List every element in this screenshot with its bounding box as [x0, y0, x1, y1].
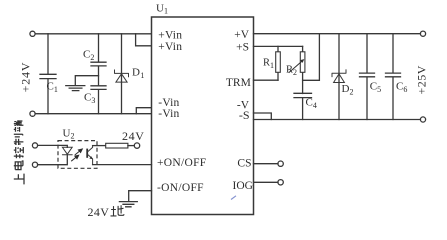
terminal 24V	[134, 143, 139, 148]
pin label CS	[237, 157, 251, 169]
capacitor C3	[84, 86, 106, 114]
ground 24V	[119, 202, 137, 207]
wire collector to resistor	[93, 145, 106, 147]
potentiometer R2	[286, 46, 305, 93]
wire -V staple	[254, 113, 272, 120]
terminal control top	[32, 143, 37, 148]
svg-text:+Vin: +Vin	[158, 29, 182, 41]
terminal input - (bottom left)	[30, 111, 35, 116]
label 上电控制端 (hand-drawn, rotated)	[14, 120, 24, 184]
pin label +ON/OFF	[157, 157, 207, 169]
LED of U2	[38, 145, 73, 164]
pin label +Vin (2)	[158, 41, 182, 53]
terminal control bottom	[32, 162, 37, 167]
wire -ON/OFF to ground	[129, 191, 152, 202]
zener diode D1	[115, 34, 145, 114]
label +24V	[19, 62, 33, 93]
terminal +25V bottom	[420, 117, 425, 122]
wire +S line	[254, 45, 303, 47]
svg-text:-Vin: -Vin	[158, 108, 179, 120]
capacitor C2	[83, 34, 106, 86]
terminal CS	[278, 161, 283, 166]
wire top-left rail	[35, 33, 151, 35]
pin label +S	[236, 41, 249, 53]
pin label -Vin (1)	[158, 97, 179, 109]
capacitor C4	[294, 93, 317, 119]
pin label TRM	[226, 77, 251, 89]
svg-text:TRM: TRM	[226, 77, 251, 89]
label U1	[156, 2, 168, 15]
svg-text:-S: -S	[239, 108, 250, 122]
svg-text:+24V: +24V	[19, 62, 33, 93]
terminal +25V top	[420, 31, 425, 36]
zener diode D2	[332, 34, 353, 120]
wire resistor to 24V terminal	[128, 145, 134, 147]
svg-text:CS: CS	[237, 157, 251, 169]
phototransistor of U2	[87, 146, 93, 165]
pin label +Vin (1)	[158, 29, 182, 41]
wire -Vin jumper staple	[136, 108, 151, 114]
terminal input + (top left)	[30, 31, 35, 36]
pin label -S	[239, 108, 250, 122]
optocoupler U2 dashed box	[58, 141, 97, 169]
label 24V	[122, 129, 144, 143]
capacitor C6	[386, 34, 408, 120]
wire +V output rail	[254, 33, 421, 35]
ground (C2/C3 midpoint)	[66, 76, 99, 91]
wire CS	[254, 163, 279, 165]
svg-text:+S: +S	[236, 41, 249, 53]
stray mark	[231, 196, 236, 200]
wire -S output rail	[254, 119, 421, 121]
svg-text:IOG: IOG	[233, 180, 253, 192]
light arrows	[71, 149, 82, 161]
svg-text:-ON/OFF: -ON/OFF	[157, 182, 204, 194]
wire R2 node to +V rail	[303, 34, 320, 81]
pin label -Vin (2)	[158, 108, 179, 120]
label U2	[63, 128, 75, 141]
wire emitter to +ON/OFF	[93, 164, 152, 166]
svg-text:+ON/OFF: +ON/OFF	[157, 157, 207, 169]
pin label +V	[234, 29, 249, 41]
resistor (24V pull-up)	[106, 143, 128, 148]
pin label -ON/OFF	[157, 182, 204, 194]
wire TRM	[254, 79, 279, 81]
resistor R1	[263, 46, 280, 80]
pin label -V	[237, 100, 250, 112]
svg-text:+Vin: +Vin	[158, 41, 182, 53]
svg-text:+V: +V	[234, 29, 249, 41]
wire +Vin jumper staple	[136, 34, 152, 46]
svg-text:+25V: +25V	[415, 65, 429, 94]
wire IOG	[254, 181, 279, 183]
svg-text:24V: 24V	[88, 205, 110, 219]
label +25V	[415, 65, 429, 94]
wire bottom-left rail	[35, 113, 151, 115]
pin label IOG	[233, 180, 253, 192]
IC U1 box	[152, 17, 254, 215]
label 24V 地	[88, 205, 124, 219]
capacitor C5	[360, 34, 382, 120]
capacitor C1	[40, 34, 58, 114]
terminal IOG	[278, 180, 283, 185]
svg-text:24V: 24V	[122, 129, 144, 143]
